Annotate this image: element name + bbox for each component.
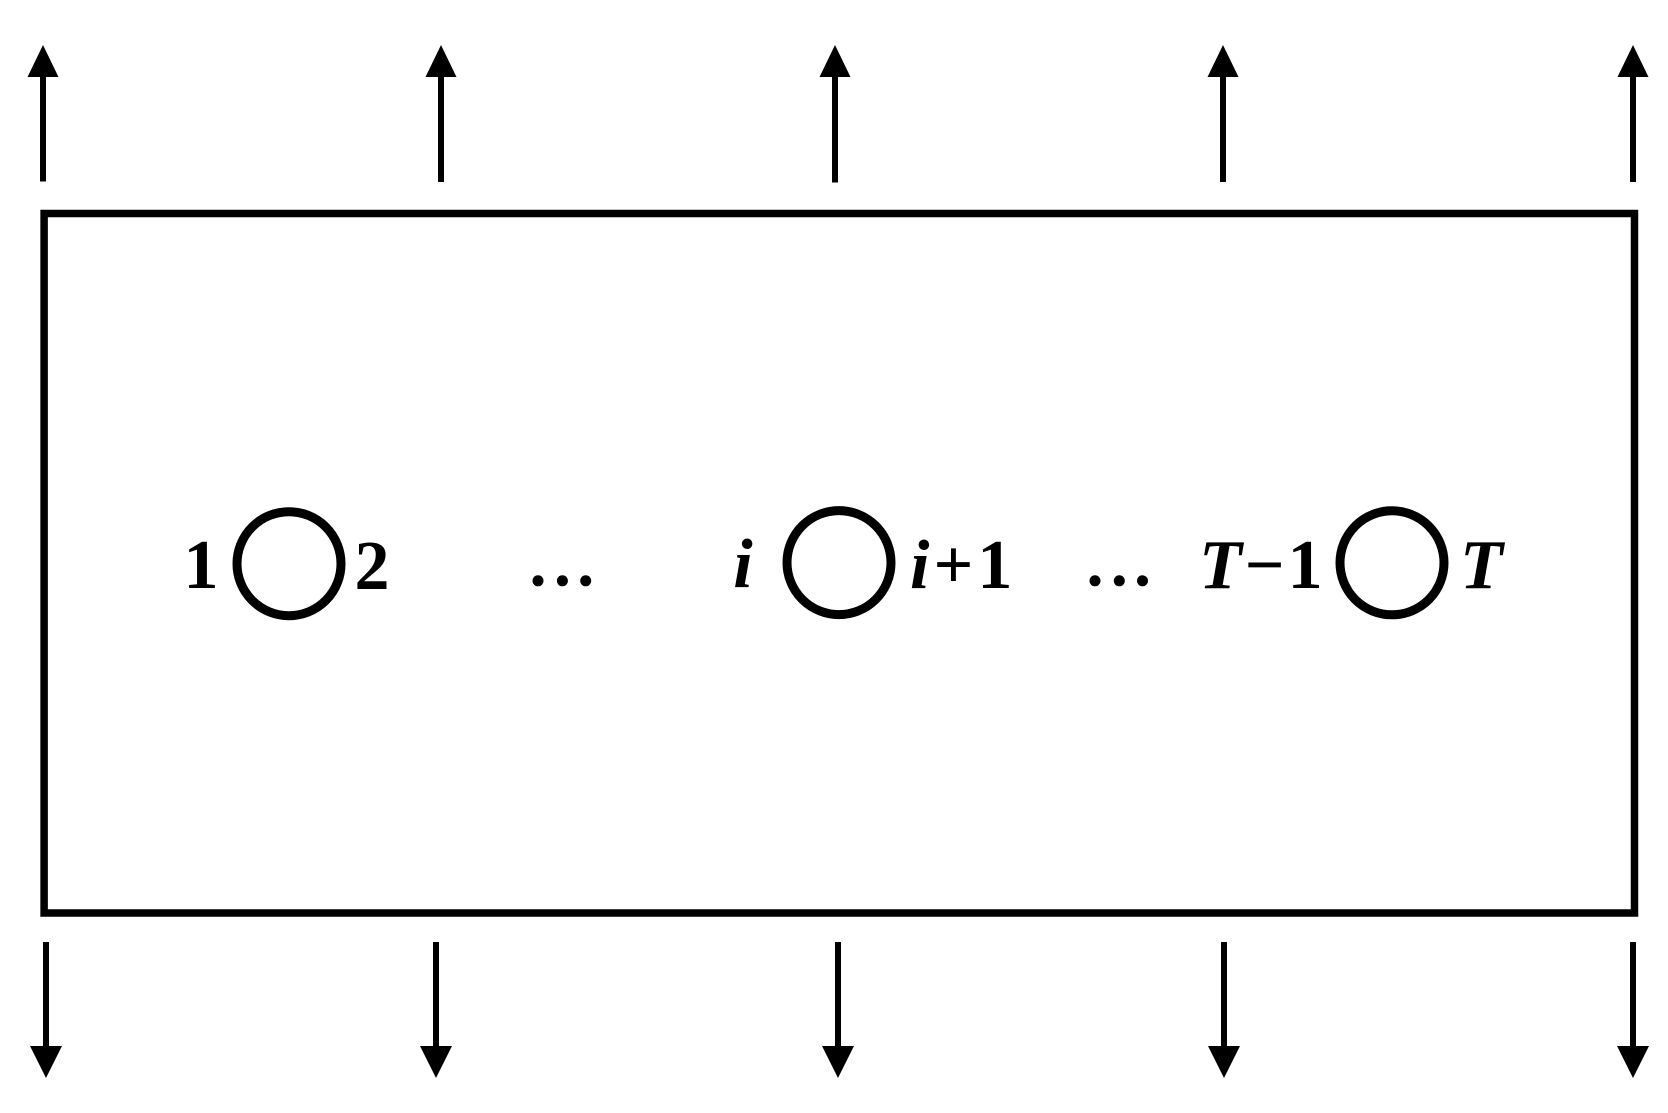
svg-text:T−1: T−1 — [1199, 527, 1326, 604]
ellipsis dots (left) — [533, 575, 592, 586]
hole between crack tips 1 and 2 — [237, 512, 341, 616]
bottom tension arrow 3 — [822, 942, 854, 1078]
svg-text:T: T — [1460, 527, 1506, 604]
svg-text:i: i — [733, 526, 753, 603]
ellipsis dots (right) — [1090, 575, 1149, 586]
hole between crack tips T-1 and T — [1340, 511, 1444, 615]
bottom tension arrow 4 — [1208, 942, 1240, 1078]
top tension arrow 3 — [820, 45, 851, 183]
bottom tension arrow 2 — [420, 942, 452, 1078]
svg-text:i+1: i+1 — [910, 527, 1016, 604]
top tension arrow 2 — [426, 45, 457, 182]
svg-text:2: 2 — [355, 528, 390, 605]
hole between crack tips i and i+1 — [787, 511, 891, 615]
bottom tension arrow 1 — [30, 942, 62, 1078]
top tension arrow 1 — [28, 45, 59, 182]
plate outline (rectangular strip) — [44, 214, 1634, 914]
top tension arrow 5 — [1618, 45, 1649, 182]
svg-text:1: 1 — [184, 527, 219, 604]
top tension arrow 4 — [1208, 45, 1239, 182]
bottom tension arrow 5 — [1617, 942, 1649, 1078]
